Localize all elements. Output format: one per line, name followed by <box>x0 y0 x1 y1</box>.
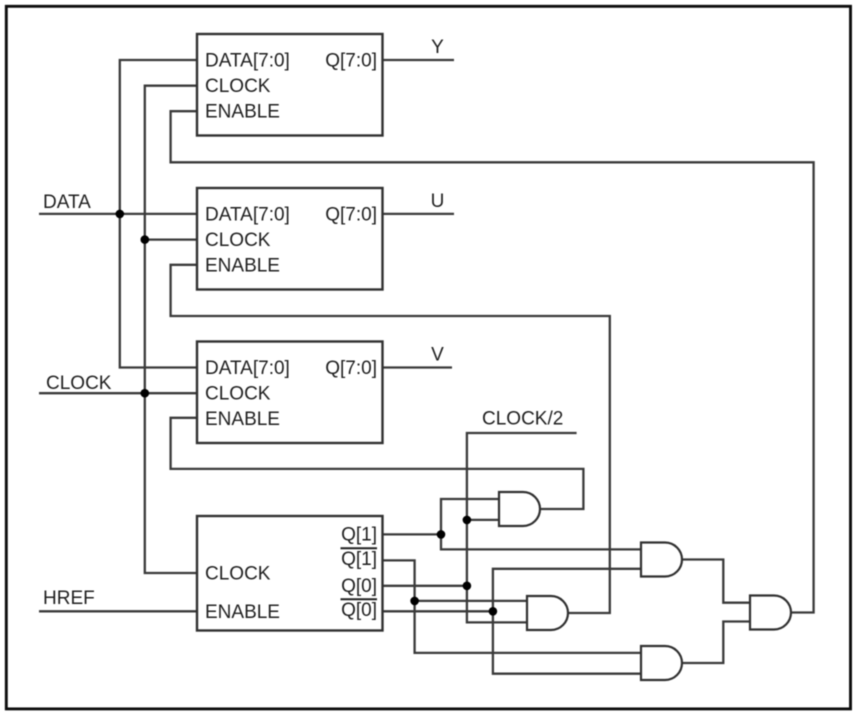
wire Q[0]-bar pin stub <box>383 610 493 612</box>
svg-text:ENABLE: ENABLE <box>205 409 280 430</box>
wire Q[1] branches to G1 and G3 <box>441 499 641 549</box>
wire CLOCK feed horizontal <box>39 392 197 394</box>
wire output U <box>383 213 455 215</box>
AND gate G1 (V enable) <box>499 492 540 526</box>
wire Q[0] CLOCK/2 vertical with stub <box>467 433 577 622</box>
svg-text:Q[7:0]: Q[7:0] <box>325 358 377 379</box>
wire G3 output to G5 input A <box>682 560 750 603</box>
svg-text:Y: Y <box>431 37 444 58</box>
register U3 (V) <box>197 342 383 444</box>
svg-text:Q[7:0]: Q[7:0] <box>325 205 377 226</box>
node Q[0] junction at G1 branch <box>463 516 472 525</box>
svg-text:Q[0]: Q[0] <box>341 600 377 621</box>
counter U4 <box>197 516 383 631</box>
svg-text:HREF: HREF <box>43 588 95 609</box>
wire Q[1] pin stub <box>383 533 442 535</box>
wire output V <box>383 366 453 368</box>
node CLOCK junction at U2 <box>141 235 150 244</box>
svg-text:CLOCK: CLOCK <box>46 373 112 394</box>
svg-text:V: V <box>431 345 444 366</box>
AND gate G4 <box>641 646 682 680</box>
AND gate G2 (U enable) <box>527 596 568 630</box>
wire Q[0] pin stub <box>383 585 467 587</box>
register U2 (U) <box>197 188 383 290</box>
wire Q[0] branch to G1 <box>467 519 499 521</box>
svg-text:Q[1]: Q[1] <box>341 524 377 545</box>
node Q[0]-bar junction <box>489 607 498 616</box>
svg-text:ENABLE: ENABLE <box>205 102 280 123</box>
svg-text:ENABLE: ENABLE <box>205 602 280 623</box>
AND gate G5 (Y enable) <box>750 596 791 630</box>
svg-text:CLOCK: CLOCK <box>205 564 271 585</box>
wire U-enable net from G2 output to U2 ENABLE <box>171 265 610 613</box>
register U1 (Y) <box>197 34 383 136</box>
svg-text:DATA[7:0]: DATA[7:0] <box>205 51 290 72</box>
svg-text:Q[7:0]: Q[7:0] <box>325 51 377 72</box>
svg-text:CLOCK: CLOCK <box>205 384 271 405</box>
node Q[1]-bar junction <box>410 597 419 606</box>
wire Q[0]-bar vertical to G3 and G4 <box>493 569 641 674</box>
wire CLOCK vertical bus U1 to counter <box>145 86 197 573</box>
svg-text:CLOCK: CLOCK <box>205 230 271 251</box>
node Q[1] junction <box>437 530 446 539</box>
wire output Y <box>383 59 455 61</box>
wire Y-enable net from G5 output to U1 ENABLE <box>171 111 814 612</box>
svg-text:Q[1]: Q[1] <box>341 549 377 570</box>
wire V-enable net from G1 output to U3 ENABLE <box>171 418 584 509</box>
node DATA junction <box>116 210 125 219</box>
svg-text:DATA[7:0]: DATA[7:0] <box>205 205 290 226</box>
svg-text:CLOCK: CLOCK <box>205 76 271 97</box>
wire G4 output to G5 input B <box>682 622 750 664</box>
wire CLOCK stub to U2 <box>145 238 197 240</box>
wire Q[1]-bar branch to G2 <box>415 600 527 602</box>
node CLOCK junction at feed <box>141 389 150 398</box>
svg-text:U: U <box>431 191 445 212</box>
svg-text:DATA[7:0]: DATA[7:0] <box>205 358 290 379</box>
wire DATA feed horizontal <box>39 213 197 215</box>
svg-text:ENABLE: ENABLE <box>205 256 280 277</box>
wire Q[1]-bar net to G4 <box>383 560 642 653</box>
wire HREF feed <box>39 610 197 612</box>
svg-text:CLOCK/2: CLOCK/2 <box>482 409 563 430</box>
svg-text:DATA: DATA <box>43 192 91 213</box>
node Q[0] junction at pin <box>463 582 472 591</box>
AND gate G3 <box>641 543 682 577</box>
svg-text:Q[0]: Q[0] <box>341 576 377 597</box>
wire DATA vertical bus to U1 and U3 <box>120 60 197 368</box>
